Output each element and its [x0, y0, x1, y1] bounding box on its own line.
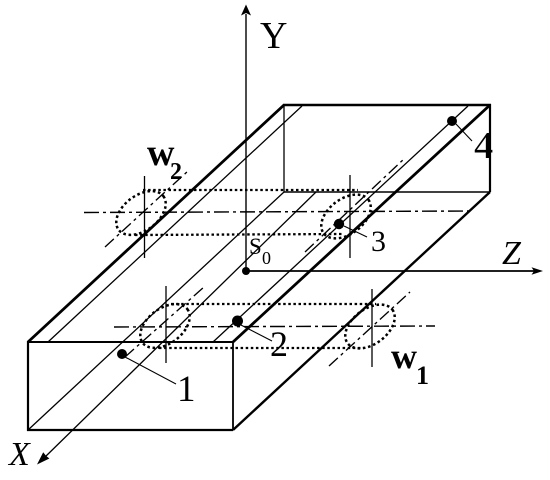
wire vertical cross line of w2 left ellipse [144, 176, 146, 258]
wire dash-dot axial line through w1 left ellipse [125, 287, 204, 357]
svg-text:0: 0 [262, 248, 271, 268]
node point 1 [117, 349, 127, 359]
wire leader line of point 1 [125, 357, 176, 384]
svg-text:1: 1 [177, 369, 196, 410]
node left end ellipse of waveguide w1 [132, 295, 198, 357]
svg-text:3: 3 [371, 225, 386, 258]
wire dotted top line of waveguide w2 [143, 189, 358, 191]
wire back left edge of box [283, 105, 285, 192]
X axis [44, 192, 316, 458]
wire vertical cross line of w2 right ellipse [349, 175, 351, 258]
Z axis arrowhead [532, 267, 544, 274]
node origin point S0 [242, 267, 250, 275]
Z axis [246, 270, 534, 272]
wire top-right receding edge of box [233, 105, 490, 342]
wire interior thin line A on top face [48, 106, 302, 342]
wire dash-dot axial line through w2 right ellipse [305, 158, 405, 252]
svg-text:2: 2 [170, 159, 182, 185]
node point 3 [334, 219, 344, 229]
X axis arrowhead [37, 452, 49, 464]
svg-text:Z: Z [502, 235, 522, 272]
svg-text:w: w [391, 336, 417, 376]
wire dotted bottom line of waveguide w2 [135, 234, 343, 235]
svg-text:1: 1 [416, 361, 429, 390]
wire bottom-right receding edge of box [233, 192, 490, 430]
node right end ellipse of waveguide w2 near point 3 [313, 186, 379, 248]
svg-text:4: 4 [474, 125, 493, 167]
wire front bottom edge of box [27, 429, 233, 431]
wire front right edge of box [232, 342, 234, 430]
wire dotted top line of waveguide w1 [171, 303, 376, 305]
wire leader line of point 3 [344, 226, 367, 237]
wire dash-dot axial line through w1 right ellipse [329, 292, 410, 366]
wire dotted bottom line of waveguide w1 [159, 347, 364, 349]
wire bottom-left hidden receding edge of box [28, 192, 284, 430]
wire top-left receding edge of box [28, 105, 284, 342]
wire vertical cross line of w1 right ellipse [371, 289, 373, 367]
svg-text:X: X [7, 436, 31, 473]
wire front top edge of box [28, 341, 233, 343]
wire back right edge of box [489, 104, 491, 192]
wire dash-dot axial line through w2 left ellipse [105, 171, 188, 247]
svg-text:Y: Y [260, 15, 287, 57]
node left end ellipse of waveguide w2 [108, 182, 174, 244]
wire dash-dot center line of waveguide w2 [84, 211, 474, 213]
wire interior thin line B through points 2 and 4 [213, 106, 468, 342]
wire back bottom edge of box [284, 191, 490, 193]
node right end ellipse of waveguide w1 [337, 296, 403, 358]
svg-text:S: S [249, 234, 262, 259]
wire vertical cross line of w1 left ellipse [165, 286, 167, 363]
wire back top edge of box [283, 104, 491, 107]
Y axis [245, 14, 247, 270]
node point 2 [232, 316, 243, 327]
node point 4 [447, 116, 457, 126]
svg-text:2: 2 [270, 324, 288, 364]
wire leader line of point 2 [239, 324, 272, 341]
Y axis arrowhead [241, 5, 251, 16]
wire leader line of point 4 [456, 124, 472, 141]
wire dash-dot center line of waveguide w1 [114, 326, 435, 327]
wire front left edge of box [27, 341, 29, 431]
